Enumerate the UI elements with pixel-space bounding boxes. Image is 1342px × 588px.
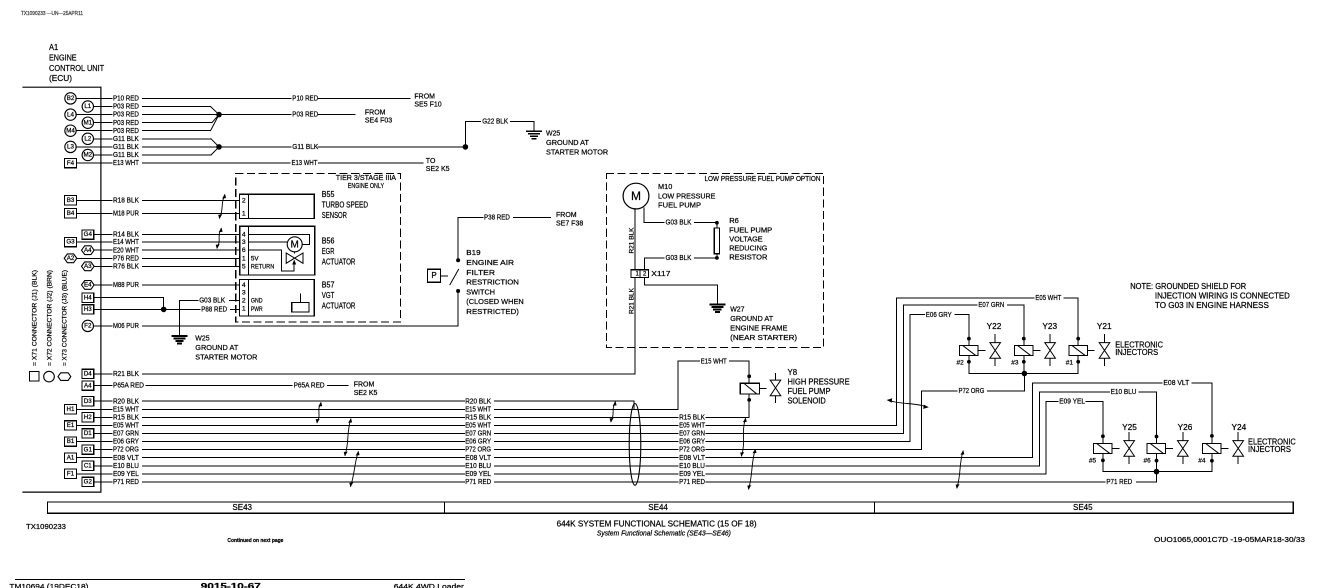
svg-text:= X72 CONNECTOR (J2) (BRN): = X72 CONNECTOR (J2) (BRN)	[46, 270, 53, 366]
node FROM SE7 F38	[556, 212, 583, 227]
svg-text:P71 RED: P71 RED	[113, 479, 139, 486]
wire P03 RED to SE4	[219, 112, 355, 119]
svg-text:W25: W25	[546, 129, 560, 138]
svg-text:System Functional Schematic (S: System Functional Schematic (SE43—SE46)	[597, 531, 731, 538]
svg-text:L2: L2	[84, 135, 91, 142]
svg-text:P03 RED: P03 RED	[113, 104, 139, 111]
svg-text:FROM: FROM	[556, 212, 577, 219]
wire injector group1 common bus	[969, 373, 1078, 375]
wire R15 BLK	[113, 394, 749, 422]
svg-text:ENGINE FRAME: ENGINE FRAME	[730, 323, 787, 332]
wire R20 BLK	[113, 398, 634, 409]
svg-text:G1: G1	[84, 446, 93, 453]
label electronic injectors group1	[1115, 341, 1163, 358]
ECU pin D1	[82, 429, 112, 438]
ECU pin F1	[65, 469, 112, 478]
svg-text:#6: #6	[1144, 458, 1152, 465]
wire G03 BLK pump to resistor	[644, 208, 717, 227]
svg-text:E15 WHT: E15 WHT	[465, 406, 492, 413]
ECU pin H1	[65, 405, 112, 414]
svg-text:E10 BLU: E10 BLU	[1111, 389, 1137, 396]
svg-text:P65A RED: P65A RED	[294, 383, 325, 390]
ECU pin B2	[65, 93, 112, 104]
junction E06 at Y22	[967, 337, 971, 341]
svg-text:Y23: Y23	[1042, 322, 1057, 331]
wire P38 RED	[458, 214, 550, 221]
svg-text:VGT: VGT	[322, 291, 335, 300]
junction resistor top	[715, 221, 719, 225]
ECU pin M1	[82, 117, 112, 128]
wire E08 VLT	[113, 380, 1212, 462]
dashed enclosure TIER 3/STAGE IIIA ENGINE ONLY	[236, 173, 401, 322]
svg-text:A3: A3	[84, 263, 92, 270]
svg-text:SE7 F38: SE7 F38	[556, 220, 583, 227]
svg-text:Y24: Y24	[1232, 423, 1247, 432]
wire P72 ORG	[113, 374, 1024, 454]
svg-text:INJECTORS: INJECTORS	[1115, 348, 1158, 357]
svg-text:M10: M10	[658, 182, 672, 191]
svg-text:P03 RED: P03 RED	[113, 128, 139, 135]
svg-text:GROUND AT: GROUND AT	[546, 138, 589, 147]
svg-text:E13 WHT: E13 WHT	[292, 160, 319, 167]
svg-text:SE2 K5: SE2 K5	[354, 390, 378, 397]
solenoid Y8 high pressure fuel pump solenoid	[740, 368, 849, 406]
svg-text:E10 BLU: E10 BLU	[465, 463, 491, 470]
svg-text:B55: B55	[322, 190, 335, 199]
svg-text:GROUND AT: GROUND AT	[195, 343, 238, 352]
svg-text:D1: D1	[84, 430, 92, 437]
wire E09 YEL	[113, 399, 1103, 478]
junction Y8 bottom	[747, 398, 751, 402]
wire E14 WHT	[113, 239, 240, 246]
svg-text:SE43: SE43	[232, 503, 252, 512]
svg-text:R76 BLK: R76 BLK	[113, 263, 139, 270]
wire R14 BLK	[113, 232, 240, 239]
injector Y26 solenoid #6	[1144, 423, 1193, 472]
svg-text:1: 1	[242, 210, 246, 217]
wire E15 WHT	[113, 358, 749, 413]
svg-text:E10 BLU: E10 BLU	[679, 463, 705, 470]
wire M88 PUR	[113, 282, 240, 289]
svg-text:M1: M1	[83, 119, 92, 126]
motor M10 low pressure fuel pump	[623, 182, 715, 210]
svg-text:4: 4	[242, 232, 246, 239]
svg-text:H4: H4	[84, 294, 92, 301]
ECU pin M2	[82, 149, 112, 160]
svg-text:G03 BLK: G03 BLK	[666, 255, 692, 262]
svg-text:R21 BLK: R21 BLK	[628, 287, 635, 314]
svg-text:E07 GRN: E07 GRN	[978, 302, 1004, 309]
svg-text:F2: F2	[84, 323, 92, 330]
svg-text:P72 ORG: P72 ORG	[679, 447, 705, 454]
svg-text:= X73 CONNECTOR (J3) (BLUE): = X73 CONNECTOR (J3) (BLUE)	[62, 270, 69, 366]
svg-text:OUO1065,0001C7D -19-05MAR18-30: OUO1065,0001C7D -19-05MAR18-30/33	[1154, 535, 1305, 544]
svg-text:#3: #3	[1011, 360, 1019, 367]
svg-text:ENGINE AIR: ENGINE AIR	[466, 258, 514, 267]
wire M06 PUR	[113, 323, 458, 330]
wire E07 GRN	[113, 302, 1024, 437]
junction E07 at Y23	[1022, 337, 1026, 341]
svg-text:D4: D4	[84, 371, 92, 378]
crossing mark 2	[216, 228, 223, 249]
crossing mark 1	[218, 194, 226, 219]
ECU pin A4	[82, 381, 112, 390]
svg-text:A1: A1	[49, 43, 59, 52]
crossing mark 8	[747, 449, 756, 490]
svg-text:P71 RED: P71 RED	[1106, 479, 1132, 486]
junction #5 lower	[1101, 459, 1105, 463]
svg-text:ACTUATOR: ACTUATOR	[322, 257, 356, 266]
crossing mark 6	[610, 401, 617, 422]
svg-text:E1: E1	[67, 422, 75, 429]
ground W25 at starter motor (G03)	[172, 333, 258, 361]
svg-text:PWR: PWR	[251, 306, 263, 313]
svg-text:E08 VLT: E08 VLT	[679, 455, 706, 462]
svg-text:B56: B56	[322, 236, 335, 245]
svg-text:4: 4	[242, 282, 246, 289]
svg-text:B19: B19	[466, 248, 480, 257]
actuator B57 VGT actuator	[240, 279, 356, 316]
svg-text:E07 GRN: E07 GRN	[113, 431, 139, 438]
svg-text:P03 RED: P03 RED	[113, 120, 139, 127]
wire P10 RED	[113, 96, 410, 103]
footer rule	[16, 579, 465, 581]
svg-text:SE4 F03: SE4 F03	[365, 118, 392, 125]
svg-text:M06 PUR: M06 PUR	[113, 323, 139, 330]
injector Y22 solenoid #2	[957, 322, 1002, 374]
svg-text:NOTE: GROUNDED SHIELD FOR: NOTE: GROUNDED SHIELD FOR	[1130, 282, 1246, 291]
wire P71 RED	[113, 472, 1157, 486]
junction #2 lower	[967, 360, 971, 364]
svg-text:TURBO SPEED: TURBO SPEED	[322, 200, 369, 209]
svg-text:1: 1	[242, 255, 246, 262]
svg-text:M: M	[631, 189, 641, 203]
wire H4 to H3 tie	[94, 298, 164, 310]
svg-text:B4: B4	[67, 210, 75, 217]
svg-text:B2: B2	[67, 95, 75, 102]
wire P65A RED	[113, 383, 348, 390]
junction E05 at Y21	[1076, 337, 1080, 341]
svg-text:P71 RED: P71 RED	[465, 479, 491, 486]
svg-text:#2: #2	[957, 360, 965, 367]
svg-text:EGR: EGR	[322, 247, 335, 256]
injector Y25 solenoid #5	[1089, 423, 1138, 472]
connector legend X71 X72 X73	[30, 270, 71, 382]
svg-text:G03 BLK: G03 BLK	[199, 298, 225, 305]
ECU A1 boundary bracket	[23, 87, 101, 492]
junction group2 bus P71	[1154, 469, 1160, 475]
junction P03 RED	[216, 112, 222, 118]
junction H4 H3	[161, 307, 167, 313]
ECU pin C1	[82, 461, 112, 470]
junction resistor bottom	[715, 256, 719, 260]
junction Y8 top	[747, 374, 751, 378]
note grounded shield	[1130, 282, 1290, 310]
svg-text:SOLENOID: SOLENOID	[788, 396, 827, 405]
junction #3 lower	[1022, 360, 1026, 364]
harness bundle ellipse	[629, 404, 641, 486]
svg-text:LOW PRESSURE FUEL PUMP OPTION: LOW PRESSURE FUEL PUMP OPTION	[705, 174, 821, 183]
svg-text:B57: B57	[322, 281, 335, 290]
svg-text:ENGINE ONLY: ENGINE ONLY	[348, 181, 384, 190]
svg-text:LOW PRESSURE: LOW PRESSURE	[658, 191, 715, 200]
injector Y21 solenoid #1	[1066, 322, 1112, 374]
junction #4 lower	[1210, 459, 1214, 463]
svg-text:F1: F1	[67, 470, 75, 477]
svg-text:SE5 F10: SE5 F10	[414, 101, 441, 108]
svg-text:Y21: Y21	[1097, 322, 1112, 331]
svg-text:6: 6	[242, 247, 246, 254]
svg-text:FROM: FROM	[354, 382, 375, 389]
ECU pin G4	[82, 230, 112, 239]
ECU pin L3	[65, 141, 112, 152]
wire P03 RED group	[113, 104, 219, 135]
junction group1 bus P72	[1022, 371, 1028, 377]
ECU pin A4	[82, 246, 113, 255]
svg-text:(CLOSED WHEN: (CLOSED WHEN	[466, 297, 523, 306]
wire G22 BLK	[465, 118, 534, 146]
svg-text:= X71 CONNECTOR (J1) (BLK): = X71 CONNECTOR (J1) (BLK)	[31, 270, 38, 366]
svg-text:E07 GRN: E07 GRN	[465, 431, 491, 438]
node FROM SE2 K5 (P65A)	[354, 382, 378, 397]
svg-text:E06 GRY: E06 GRY	[465, 439, 491, 446]
svg-text:G11 BLK: G11 BLK	[113, 144, 139, 151]
svg-text:REDUCING: REDUCING	[729, 243, 767, 252]
svg-text:R15 BLK: R15 BLK	[113, 414, 139, 421]
wire E20 WHT	[113, 247, 240, 254]
svg-text:FILTER: FILTER	[466, 268, 495, 277]
svg-text:R15 BLK: R15 BLK	[465, 414, 491, 421]
svg-text:5: 5	[242, 263, 246, 270]
svg-text:2: 2	[242, 197, 246, 204]
junction E09 at Y25	[1101, 434, 1105, 438]
svg-text:Y26: Y26	[1178, 423, 1193, 432]
svg-text:G3: G3	[66, 239, 75, 246]
svg-text:SWITCH: SWITCH	[466, 287, 495, 296]
svg-text:G11 BLK: G11 BLK	[113, 136, 139, 143]
node FROM SE4 F03	[365, 110, 392, 125]
svg-text:P65A RED: P65A RED	[113, 383, 144, 390]
wire G03 BLK X117 to resistor	[644, 255, 717, 270]
ECU pin B4	[65, 209, 112, 218]
junction G11 BLK	[216, 144, 222, 150]
label electronic injectors group2	[1248, 438, 1296, 455]
ECU pin A3	[82, 262, 113, 271]
svg-text:P72 ORG: P72 ORG	[959, 388, 985, 395]
svg-text:STARTER MOTOR: STARTER MOTOR	[195, 352, 258, 361]
svg-text:E05 WHT: E05 WHT	[1035, 295, 1062, 302]
svg-text:INJECTORS: INJECTORS	[1248, 445, 1291, 454]
connector X117	[631, 269, 670, 278]
svg-text:644K SYSTEM FUNCTIONAL SCHEMAT: 644K SYSTEM FUNCTIONAL SCHEMATIC (15 OF …	[557, 518, 757, 528]
svg-text:R14 BLK: R14 BLK	[113, 232, 139, 239]
ECU pin G2	[82, 477, 112, 486]
svg-text:TM10694 (19DEC18): TM10694 (19DEC18)	[9, 582, 88, 588]
wire E05 WHT	[113, 295, 1078, 430]
svg-text:5V: 5V	[251, 255, 259, 262]
svg-text:Y8: Y8	[788, 368, 798, 377]
svg-text:#5: #5	[1089, 458, 1097, 465]
svg-text:#1: #1	[1066, 360, 1074, 367]
svg-text:E09 YEL: E09 YEL	[465, 471, 491, 478]
junction #1 lower	[1076, 360, 1080, 364]
crossing mark 4	[344, 418, 352, 456]
svg-text:INJECTION WIRING IS CONNECTED: INJECTION WIRING IS CONNECTED	[1155, 291, 1290, 300]
svg-text:FUEL PUMP: FUEL PUMP	[729, 225, 772, 234]
wire G11 BLK group	[113, 136, 219, 159]
svg-text:A1: A1	[67, 454, 75, 461]
svg-text:M18 PUR: M18 PUR	[113, 210, 139, 217]
dashed enclosure LOW PRESSURE FUEL PUMP OPTION	[607, 173, 824, 347]
svg-text:C1: C1	[84, 462, 92, 469]
wire G11 BLK main run	[219, 144, 465, 151]
crossing mark 3	[316, 402, 323, 423]
svg-text:TO: TO	[426, 158, 436, 165]
crossing mark 7	[740, 418, 747, 457]
svg-text:P10 RED: P10 RED	[292, 96, 318, 103]
wire injector group2 common bus	[1103, 471, 1212, 473]
svg-text:P72 ORG: P72 ORG	[113, 447, 139, 454]
ECU pin M4	[65, 125, 112, 136]
svg-text:G22 BLK: G22 BLK	[482, 118, 508, 125]
ECU pin G1	[82, 445, 112, 454]
ECU pin L4	[65, 109, 112, 120]
svg-text:A2: A2	[67, 255, 75, 262]
svg-text:E05 WHT: E05 WHT	[113, 423, 140, 430]
junction G11 G22 splice	[463, 144, 469, 150]
svg-text:L1: L1	[84, 103, 91, 110]
svg-text:E09 YEL: E09 YEL	[1059, 399, 1085, 406]
svg-text:M2: M2	[83, 152, 92, 159]
svg-text:D3: D3	[84, 398, 92, 405]
svg-text:HIGH PRESSURE: HIGH PRESSURE	[788, 377, 850, 386]
svg-text:SE2 K5: SE2 K5	[426, 166, 450, 173]
wire X117 pin2 to ground W27	[644, 278, 717, 304]
svg-text:H1: H1	[67, 406, 75, 413]
ECU pin D3	[82, 397, 112, 406]
svg-text:FUEL PUMP: FUEL PUMP	[658, 201, 701, 210]
svg-text:E05 WHT: E05 WHT	[465, 423, 492, 430]
svg-text:E06 GRY: E06 GRY	[926, 312, 952, 319]
junction E08 at Y24	[1210, 434, 1214, 438]
svg-text:RETURN: RETURN	[251, 264, 275, 271]
svg-text:E4: E4	[84, 282, 92, 289]
svg-text:FROM: FROM	[414, 93, 435, 100]
node TO SE2 K5	[426, 158, 450, 173]
svg-text:L4: L4	[67, 111, 74, 118]
svg-text:E05 WHT: E05 WHT	[679, 423, 706, 430]
svg-text:H2: H2	[84, 414, 92, 421]
svg-text:E06 GRY: E06 GRY	[113, 439, 139, 446]
svg-text:SE44: SE44	[648, 503, 668, 512]
svg-text:E10 BLU: E10 BLU	[113, 463, 139, 470]
svg-text:E20 WHT: E20 WHT	[113, 247, 140, 254]
svg-text:RESISTOR: RESISTOR	[729, 253, 768, 262]
wire E13 WHT	[113, 160, 423, 167]
svg-text:G03 BLK: G03 BLK	[666, 220, 692, 227]
svg-text:M: M	[291, 240, 299, 251]
svg-text:R21 BLK: R21 BLK	[113, 371, 139, 378]
actuator B56 EGR actuator	[240, 226, 356, 275]
ECU pin H4	[82, 293, 112, 302]
wire R21 BLK main run	[113, 371, 635, 378]
svg-text:P38 RED: P38 RED	[484, 214, 510, 221]
svg-text:FROM: FROM	[365, 110, 386, 117]
ECU pin B1	[65, 437, 112, 446]
svg-text:P76 RED: P76 RED	[113, 255, 139, 262]
junction E10 at Y26	[1155, 435, 1159, 439]
section bar SE43 SE44 SE45	[48, 502, 1294, 513]
svg-text:G11 BLK: G11 BLK	[292, 144, 318, 151]
ECU pin L1	[82, 101, 112, 112]
svg-text:E08 VLT: E08 VLT	[465, 455, 492, 462]
ground W25 at starter motor (G22)	[527, 129, 609, 157]
ECU pin F2	[82, 320, 112, 331]
svg-text:G11 BLK: G11 BLK	[113, 152, 139, 159]
svg-text:3: 3	[242, 290, 246, 297]
wire P88 RED	[94, 307, 240, 314]
svg-text:R15 BLK: R15 BLK	[679, 414, 705, 421]
svg-text:X117: X117	[651, 269, 670, 278]
svg-text:P72 ORG: P72 ORG	[465, 447, 491, 454]
svg-text:M4: M4	[66, 127, 75, 134]
svg-text:G2: G2	[84, 479, 93, 486]
svg-text:E07 GRN: E07 GRN	[679, 431, 705, 438]
svg-text:R20 BLK: R20 BLK	[113, 398, 139, 405]
svg-text:G4: G4	[84, 231, 93, 238]
ECU pin D4	[82, 369, 112, 378]
crossing mark horizontal arrow	[887, 398, 929, 409]
svg-text:E08 VLT: E08 VLT	[113, 455, 140, 462]
junction #6 lower	[1155, 459, 1159, 463]
svg-text:E15 WHT: E15 WHT	[113, 406, 140, 413]
svg-text:GND: GND	[251, 297, 263, 304]
svg-text:P03 RED: P03 RED	[292, 112, 318, 119]
svg-text:P88 RED: P88 RED	[201, 307, 227, 314]
svg-text:SE45: SE45	[1073, 503, 1093, 512]
svg-text:ENGINE: ENGINE	[49, 53, 77, 62]
ECU pin F4	[65, 158, 112, 167]
crossing mark 5	[349, 451, 359, 487]
svg-text:E14 WHT: E14 WHT	[113, 239, 140, 246]
svg-text:R20 BLK: R20 BLK	[465, 398, 491, 405]
svg-text:A4: A4	[84, 247, 92, 254]
svg-text:RESTRICTED): RESTRICTED)	[466, 307, 519, 316]
wire E10 BLU	[113, 389, 1157, 470]
crossing mark 9	[956, 450, 965, 488]
svg-text:E08 VLT: E08 VLT	[1163, 380, 1190, 387]
svg-text:Y25: Y25	[1122, 423, 1137, 432]
svg-text:9015-10-67: 9015-10-67	[201, 582, 261, 588]
wire R18 BLK	[113, 198, 240, 205]
svg-text:ACTUATOR: ACTUATOR	[322, 302, 356, 311]
svg-text:1: 1	[242, 306, 246, 313]
svg-text:STARTER MOTOR: STARTER MOTOR	[546, 147, 609, 156]
ECU pin H3	[82, 305, 112, 314]
ground W27 at engine frame	[710, 304, 797, 341]
ECU pin B3	[65, 196, 112, 205]
svg-text:644K 4WD Loader: 644K 4WD Loader	[394, 582, 465, 588]
ECU pin A2	[64, 254, 112, 263]
svg-text:CONTROL UNIT: CONTROL UNIT	[49, 64, 104, 73]
node FROM SE5 F10	[414, 93, 441, 108]
svg-text:Continued on next page: Continued on next page	[227, 538, 283, 544]
svg-text:#4: #4	[1198, 458, 1206, 465]
svg-text:P03 RED: P03 RED	[113, 112, 139, 119]
svg-text:R6: R6	[729, 216, 739, 225]
svg-text:P: P	[431, 271, 436, 280]
svg-text:P10 RED: P10 RED	[113, 96, 139, 103]
